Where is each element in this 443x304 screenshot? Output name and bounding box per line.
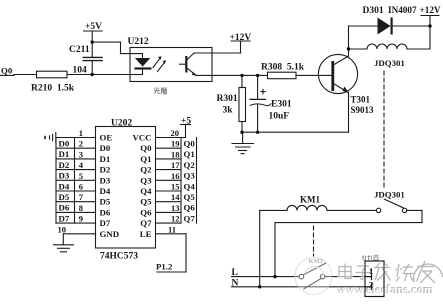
- svg-text:10uF: 10uF: [269, 112, 290, 122]
- svg-text:2: 2: [79, 139, 83, 149]
- svg-text:D3: D3: [59, 171, 70, 181]
- svg-text:Q7: Q7: [140, 218, 152, 228]
- svg-text:VCC: VCC: [132, 133, 151, 143]
- svg-text:+5V: +5V: [85, 22, 102, 32]
- svg-text:D4: D4: [59, 181, 70, 191]
- svg-text:+12V: +12V: [230, 33, 252, 43]
- svg-text:Q0: Q0: [1, 66, 13, 76]
- svg-text:D2: D2: [100, 165, 111, 175]
- svg-text:E301: E301: [271, 100, 292, 110]
- svg-text:Q3: Q3: [184, 171, 196, 181]
- svg-text:D5: D5: [100, 197, 111, 207]
- svg-text:N: N: [232, 278, 239, 288]
- svg-text:Q0: Q0: [140, 143, 152, 153]
- svg-text:Q0: Q0: [184, 139, 196, 149]
- svg-text:1: 1: [369, 266, 373, 276]
- svg-text:6: 6: [79, 182, 83, 192]
- svg-text:C211: C211: [69, 45, 90, 55]
- svg-text:3k: 3k: [223, 106, 234, 116]
- svg-text:LE: LE: [140, 229, 152, 239]
- svg-text:Q3: Q3: [140, 175, 152, 185]
- svg-text:R301: R301: [217, 94, 238, 104]
- svg-text:5: 5: [79, 171, 83, 181]
- svg-text:T301: T301: [351, 95, 371, 105]
- svg-text:D7: D7: [100, 218, 111, 228]
- svg-text:+12V: +12V: [420, 5, 441, 15]
- svg-text:www.elecfans.com: www.elecfans.com: [338, 283, 435, 297]
- svg-text:10: 10: [58, 224, 67, 234]
- svg-text:D1: D1: [100, 154, 111, 164]
- svg-text:D7: D7: [59, 213, 70, 223]
- svg-text:R308 5.1k: R308 5.1k: [261, 63, 305, 73]
- svg-text:JDQ301: JDQ301: [374, 190, 405, 200]
- svg-text:OE: OE: [100, 133, 113, 143]
- svg-text:D5: D5: [59, 192, 70, 202]
- svg-text:2: 2: [369, 280, 373, 290]
- svg-text:D6: D6: [100, 207, 111, 217]
- svg-text:19: 19: [171, 139, 180, 149]
- svg-text:13: 13: [171, 203, 180, 213]
- svg-text:GND: GND: [100, 229, 120, 239]
- svg-text:P1.2: P1.2: [156, 262, 173, 272]
- svg-text:D0: D0: [100, 143, 111, 153]
- svg-text:S9013: S9013: [351, 105, 375, 115]
- svg-text:D6: D6: [59, 203, 70, 213]
- svg-text:D2: D2: [59, 160, 70, 170]
- svg-text:IN4007: IN4007: [388, 5, 417, 15]
- svg-text:D0: D0: [59, 139, 70, 149]
- svg-text:104: 104: [73, 66, 88, 76]
- svg-text:KM1: KM1: [300, 195, 320, 205]
- svg-text:Q4: Q4: [184, 181, 196, 191]
- svg-text:Q5: Q5: [140, 197, 152, 207]
- svg-text:12: 12: [171, 214, 180, 224]
- svg-text:Q6: Q6: [140, 207, 152, 217]
- svg-text:D3: D3: [100, 175, 111, 185]
- svg-text:D1: D1: [59, 149, 70, 159]
- svg-text:Q4: Q4: [140, 186, 152, 196]
- svg-text:74HC573: 74HC573: [100, 252, 138, 262]
- svg-text:16: 16: [171, 171, 180, 181]
- svg-text:1: 1: [79, 128, 83, 138]
- svg-text:+5: +5: [181, 117, 191, 127]
- svg-text:9: 9: [79, 214, 83, 224]
- svg-text:Q2: Q2: [184, 160, 196, 170]
- svg-text:3: 3: [79, 149, 83, 159]
- svg-text:20: 20: [171, 128, 180, 138]
- svg-text:D301: D301: [363, 6, 384, 16]
- svg-text:Q7: Q7: [184, 213, 196, 223]
- svg-text:R210 1.5k: R210 1.5k: [31, 84, 75, 94]
- svg-text:Q2: Q2: [140, 165, 152, 175]
- svg-text:17: 17: [171, 160, 180, 170]
- svg-text:11: 11: [168, 224, 176, 234]
- svg-text:Q6: Q6: [184, 203, 196, 213]
- svg-text:U202: U202: [111, 119, 132, 129]
- svg-text:8: 8: [79, 203, 83, 213]
- svg-text:Q5: Q5: [184, 192, 196, 202]
- svg-text:Q1: Q1: [184, 149, 195, 159]
- svg-text:14: 14: [171, 192, 180, 202]
- svg-text:L: L: [232, 268, 238, 278]
- svg-text:18: 18: [171, 149, 180, 159]
- svg-text:D4: D4: [100, 186, 111, 196]
- svg-text:U212: U212: [128, 37, 149, 47]
- svg-text:Q1: Q1: [140, 154, 151, 164]
- svg-text:JDQ301: JDQ301: [374, 58, 405, 68]
- svg-text:15: 15: [171, 182, 180, 192]
